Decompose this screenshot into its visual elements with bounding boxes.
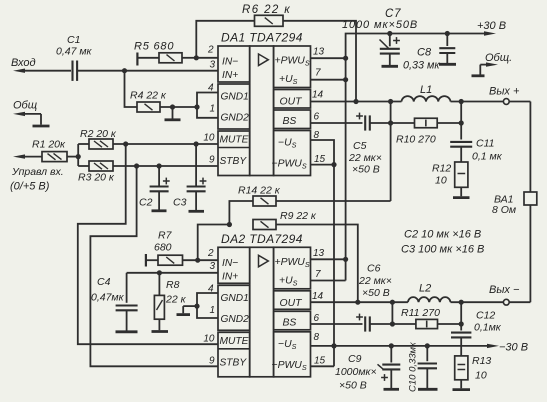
- svg-text:1000 мк×50В: 1000 мк×50В: [342, 19, 418, 31]
- capacitor C4: [91, 273, 138, 332]
- resistor R13: [455, 355, 492, 388]
- svg-text:С12: С12: [476, 310, 495, 322]
- svg-text:GND1: GND1: [221, 293, 249, 304]
- svg-text:С11: С11: [476, 138, 494, 150]
- node C3 tap: [194, 141, 199, 146]
- svg-text:4: 4: [208, 284, 214, 295]
- resistor R10: [391, 118, 462, 145]
- node C5 R10 junction: [388, 120, 393, 125]
- svg-text:6: 6: [314, 313, 320, 324]
- svg-text:STBY: STBY: [220, 156, 248, 167]
- resistor R7: [146, 230, 218, 267]
- wire L1 to output: [451, 101, 504, 103]
- svg-text:С10 0,33мк: С10 0,33мк: [408, 342, 419, 392]
- svg-text:8: 8: [314, 332, 320, 343]
- svg-text:0,1мк: 0,1мк: [474, 322, 502, 334]
- svg-text:13: 13: [313, 248, 325, 259]
- svg-text:22 мк×: 22 мк×: [348, 152, 382, 164]
- DA1 left pin texts: [220, 57, 250, 168]
- svg-text:×50 В: ×50 В: [339, 380, 367, 392]
- svg-text:BS: BS: [283, 116, 297, 127]
- wire STBY line DA1: [113, 165, 218, 167]
- wire rail to C8: [390, 31, 450, 36]
- node R14 riser top: [388, 99, 393, 104]
- svg-text:680: 680: [154, 242, 172, 254]
- ground at R8: [152, 330, 169, 333]
- DA1 left pin numbers: [203, 45, 215, 166]
- svg-text:13: 13: [313, 47, 325, 58]
- svg-text:1: 1: [209, 305, 215, 316]
- node L2 left stub: [390, 300, 395, 324]
- resistor R6 feedback DA1: [196, 4, 356, 102]
- resistor R12: [432, 162, 468, 196]
- svg-text:MUTE: MUTE: [220, 135, 249, 146]
- svg-text:R8: R8: [166, 279, 180, 291]
- wire L2 to output: [451, 301, 504, 303]
- node C6 R11 junction: [390, 321, 395, 326]
- svg-text:6: 6: [314, 112, 320, 123]
- svg-text:8 Ом: 8 Ом: [492, 204, 516, 216]
- node R10 right: [459, 102, 464, 126]
- svg-text:R14 22 к: R14 22 к: [238, 185, 281, 197]
- svg-text:22 к: 22 к: [165, 294, 187, 306]
- svg-text:10: 10: [203, 133, 215, 144]
- capacitor C11: [450, 123, 503, 163]
- resistor R3: [78, 161, 115, 184]
- ground at DA2 GND: [177, 306, 198, 315]
- svg-text:С3 100 мк ×16 В: С3 100 мк ×16 В: [401, 244, 484, 256]
- svg-text:22 мк×: 22 мк×: [358, 275, 392, 287]
- svg-text:(0/+5 В): (0/+5 В): [10, 181, 50, 193]
- svg-text:10: 10: [475, 370, 487, 382]
- svg-text:OUT: OUT: [280, 298, 303, 309]
- resistor R2: [78, 128, 117, 149]
- ground at C9: [384, 388, 400, 391]
- svg-text:С2 10 мк ×16 В: С2 10 мк ×16 В: [404, 229, 481, 241]
- svg-text:С9: С9: [348, 353, 362, 365]
- svg-text:BS: BS: [283, 317, 297, 328]
- svg-text:7: 7: [315, 269, 321, 280]
- svg-text:9: 9: [209, 356, 215, 367]
- capacitor C8: [403, 34, 455, 72]
- node R14 R9 join: [227, 222, 232, 227]
- svg-text:+30 В: +30 В: [477, 20, 506, 32]
- svg-text:−PWUS: −PWUS: [272, 159, 307, 171]
- svg-text:4: 4: [208, 83, 214, 94]
- DA1 right pin texts: [272, 56, 310, 171]
- svg-text:R9 22 к: R9 22 к: [280, 210, 317, 222]
- speaker BA1: [492, 192, 537, 216]
- svg-text:R4 22 к: R4 22 к: [130, 90, 167, 102]
- wire DA1 pin13: [311, 56, 349, 61]
- resistor R1: [32, 139, 78, 162]
- svg-text:15: 15: [314, 154, 326, 165]
- svg-text:3: 3: [209, 261, 215, 272]
- note C2 C3 values: [401, 229, 484, 256]
- DA2 right pin numbers: [312, 248, 326, 367]
- svg-text:GND1: GND1: [221, 92, 249, 103]
- terminal Вых-: [489, 284, 520, 305]
- wire to DA1 pin2: [196, 57, 218, 59]
- svg-text:STBY: STBY: [220, 357, 248, 368]
- node R9 to DA2 OUT: [355, 300, 360, 305]
- wire C1 to IN+ DA1: [77, 70, 218, 72]
- svg-text:R6 22 к: R6 22 к: [242, 4, 291, 16]
- svg-text:GND2: GND2: [221, 113, 250, 124]
- node negative rail join: [331, 343, 336, 348]
- svg-text:14: 14: [312, 291, 324, 302]
- wire DA1 pin15: [311, 164, 335, 166]
- node R6 to OUT: [353, 99, 358, 104]
- svg-text:10: 10: [203, 334, 215, 345]
- capacitor C10: [408, 342, 438, 392]
- wire DA2 pin7: [311, 280, 346, 282]
- svg-text:2: 2: [207, 45, 214, 56]
- node MUTE branch: [123, 141, 128, 146]
- svg-text:Общ.: Общ.: [485, 52, 512, 64]
- svg-text:MUTE: MUTE: [220, 336, 249, 347]
- terminal Общ right: [472, 52, 513, 76]
- wire DA1 OUT: [311, 101, 402, 103]
- svg-text:0,47мк: 0,47мк: [91, 292, 125, 304]
- svg-text:С3: С3: [173, 197, 187, 209]
- svg-text:С8: С8: [417, 47, 432, 59]
- node pin8 pin15 join: [331, 162, 336, 167]
- node L2 right: [459, 300, 464, 305]
- wire DA2 IN+: [127, 272, 218, 274]
- capacitor C9: [335, 346, 400, 392]
- node bracket DA2: [194, 304, 199, 309]
- node input junction: [122, 68, 127, 73]
- wire DA2 BS: [311, 323, 363, 325]
- node DA2 pin2 junction: [195, 258, 200, 263]
- svg-text:0,33 мк: 0,33 мк: [403, 60, 440, 72]
- svg-text:IN+: IN+: [222, 271, 238, 282]
- svg-text:Вых +: Вых +: [489, 86, 520, 98]
- resistor R8: [154, 273, 186, 330]
- node R1 split: [76, 144, 81, 166]
- capacitor C7: [342, 8, 418, 65]
- node DA1 pin2 junction: [194, 55, 199, 60]
- terminal -30V: [487, 342, 528, 354]
- wire DA2 OUT: [311, 301, 408, 303]
- svg-text:R3 20 к: R3 20 к: [78, 172, 115, 184]
- svg-text:−PWUS: −PWUS: [272, 360, 307, 372]
- svg-text:10: 10: [435, 175, 447, 187]
- capacitor C6: [356, 263, 392, 332]
- input terminal Вход: [11, 57, 71, 73]
- svg-text:IN−: IN−: [222, 258, 238, 269]
- GND bracket DA1 pins 4-1: [197, 93, 218, 118]
- wire to speaker: [529, 102, 531, 193]
- wire R14 riser: [390, 102, 392, 202]
- wire speaker to Вых-: [509, 205, 530, 302]
- resistor R4: [125, 71, 198, 112]
- svg-text:IN−: IN−: [222, 57, 238, 68]
- GND bracket DA2 pins 4-1: [197, 293, 218, 318]
- svg-text:Вход: Вход: [11, 57, 36, 69]
- op-amp U DA2 TDA7294: [218, 232, 311, 377]
- svg-text:R12: R12: [432, 163, 451, 175]
- svg-text:1: 1: [209, 104, 215, 115]
- svg-text:Вых −: Вых −: [489, 284, 520, 296]
- svg-text:Общ: Общ: [13, 100, 37, 112]
- wire positive rail: [346, 34, 390, 281]
- terminal Вых+: [489, 86, 530, 105]
- svg-text:С2: С2: [139, 197, 153, 209]
- node C2 tap: [157, 163, 162, 168]
- ground at C10: [418, 388, 438, 391]
- svg-text:0,1 мк: 0,1 мк: [472, 151, 503, 163]
- wire C5 to node: [370, 122, 391, 124]
- node bracket R4 join: [194, 104, 199, 109]
- svg-text:R2 20 к: R2 20 к: [80, 128, 117, 140]
- svg-text:L2: L2: [419, 283, 431, 295]
- wire junction to DA2 IN-: [198, 225, 230, 261]
- inductor L2: [408, 283, 451, 303]
- svg-text:С4: С4: [97, 276, 111, 288]
- svg-text:R5 680: R5 680: [134, 41, 174, 53]
- DA2 left pin numbers: [203, 248, 215, 367]
- svg-text:R11 270: R11 270: [401, 307, 440, 319]
- capacitor C1: [56, 34, 93, 81]
- inductor L1: [402, 84, 451, 102]
- DA2 left pin texts: [220, 258, 250, 369]
- svg-text:×50 В: ×50 В: [352, 164, 380, 176]
- ground at R12: [453, 196, 470, 199]
- svg-text:−30 В: −30 В: [499, 342, 528, 354]
- terminal Управл вх: [10, 154, 64, 192]
- resistor R9: [253, 210, 358, 302]
- DA1 right pin numbers: [312, 47, 326, 166]
- wire MUTE to DA2: [78, 144, 218, 344]
- svg-text:+PWUS: +PWUS: [275, 56, 310, 68]
- svg-text:0,47 мк: 0,47 мк: [56, 46, 93, 58]
- wire negative link: [333, 165, 335, 346]
- capacitor C5: [348, 113, 382, 176]
- wire DA2 pin15: [311, 346, 335, 366]
- node C10 tap: [425, 343, 430, 348]
- svg-text:L1: L1: [420, 84, 432, 96]
- svg-text:R13: R13: [472, 355, 491, 367]
- node C9 tap: [389, 343, 394, 348]
- svg-text:7: 7: [315, 68, 321, 79]
- node R4 ground tap: [170, 104, 175, 109]
- svg-text:GND2: GND2: [221, 314, 250, 325]
- svg-text:R7: R7: [158, 230, 173, 242]
- capacitor C3: [173, 144, 206, 211]
- wire C6 to node: [370, 323, 393, 325]
- op-amp U DA1 TDA7294: [218, 31, 311, 176]
- svg-text:С1: С1: [67, 34, 80, 46]
- terminal Общ left: [13, 100, 50, 127]
- node L1 right: [459, 99, 464, 104]
- wire DA1 BS: [311, 122, 363, 124]
- svg-text:14: 14: [312, 90, 324, 101]
- svg-text:2: 2: [207, 248, 214, 259]
- resistor R11: [392, 307, 461, 329]
- svg-text:Управл вх.: Управл вх.: [11, 166, 64, 178]
- svg-text:OUT: OUT: [280, 97, 303, 108]
- node C7 tap: [387, 31, 392, 36]
- svg-text:9: 9: [209, 155, 215, 166]
- capacitor C2: [139, 166, 170, 211]
- svg-text:+PWUS: +PWUS: [275, 257, 310, 269]
- node STBY branch: [134, 163, 139, 168]
- wire DA1 pin8: [311, 140, 335, 165]
- svg-text:R1 20к: R1 20к: [32, 139, 66, 151]
- ground at R13: [453, 388, 471, 391]
- ground at R4: [165, 107, 181, 120]
- resistor R14: [229, 185, 390, 225]
- resistor R5: [134, 41, 196, 66]
- wire DA1 pin7: [311, 77, 349, 82]
- svg-text:3: 3: [209, 60, 215, 71]
- ground at C8: [439, 63, 456, 66]
- wire STBY to DA2: [90, 166, 218, 366]
- node R8 tap: [157, 270, 162, 275]
- svg-text:15: 15: [314, 356, 326, 367]
- node R11 right: [459, 302, 464, 326]
- terminal +30V: [447, 20, 506, 36]
- svg-text:DA1 TDA7294: DA1 TDA7294: [221, 31, 303, 45]
- wire DA2 pin13: [311, 257, 349, 262]
- svg-text:1000мк×: 1000мк×: [335, 366, 377, 378]
- wire DA2 pin8 negative rail: [311, 345, 488, 347]
- capacitor C12: [451, 310, 502, 356]
- svg-text:IN+: IN+: [222, 70, 238, 81]
- svg-text:×50 В: ×50 В: [362, 287, 390, 299]
- svg-text:R10 270: R10 270: [396, 134, 436, 146]
- wire MUTE line DA1: [113, 143, 218, 145]
- svg-text:С6: С6: [367, 263, 381, 275]
- svg-text:С5: С5: [353, 140, 367, 152]
- DA2 right pin texts: [272, 257, 310, 372]
- ground at C7: [382, 65, 399, 68]
- svg-text:DA2 TDA7294: DA2 TDA7294: [221, 232, 303, 246]
